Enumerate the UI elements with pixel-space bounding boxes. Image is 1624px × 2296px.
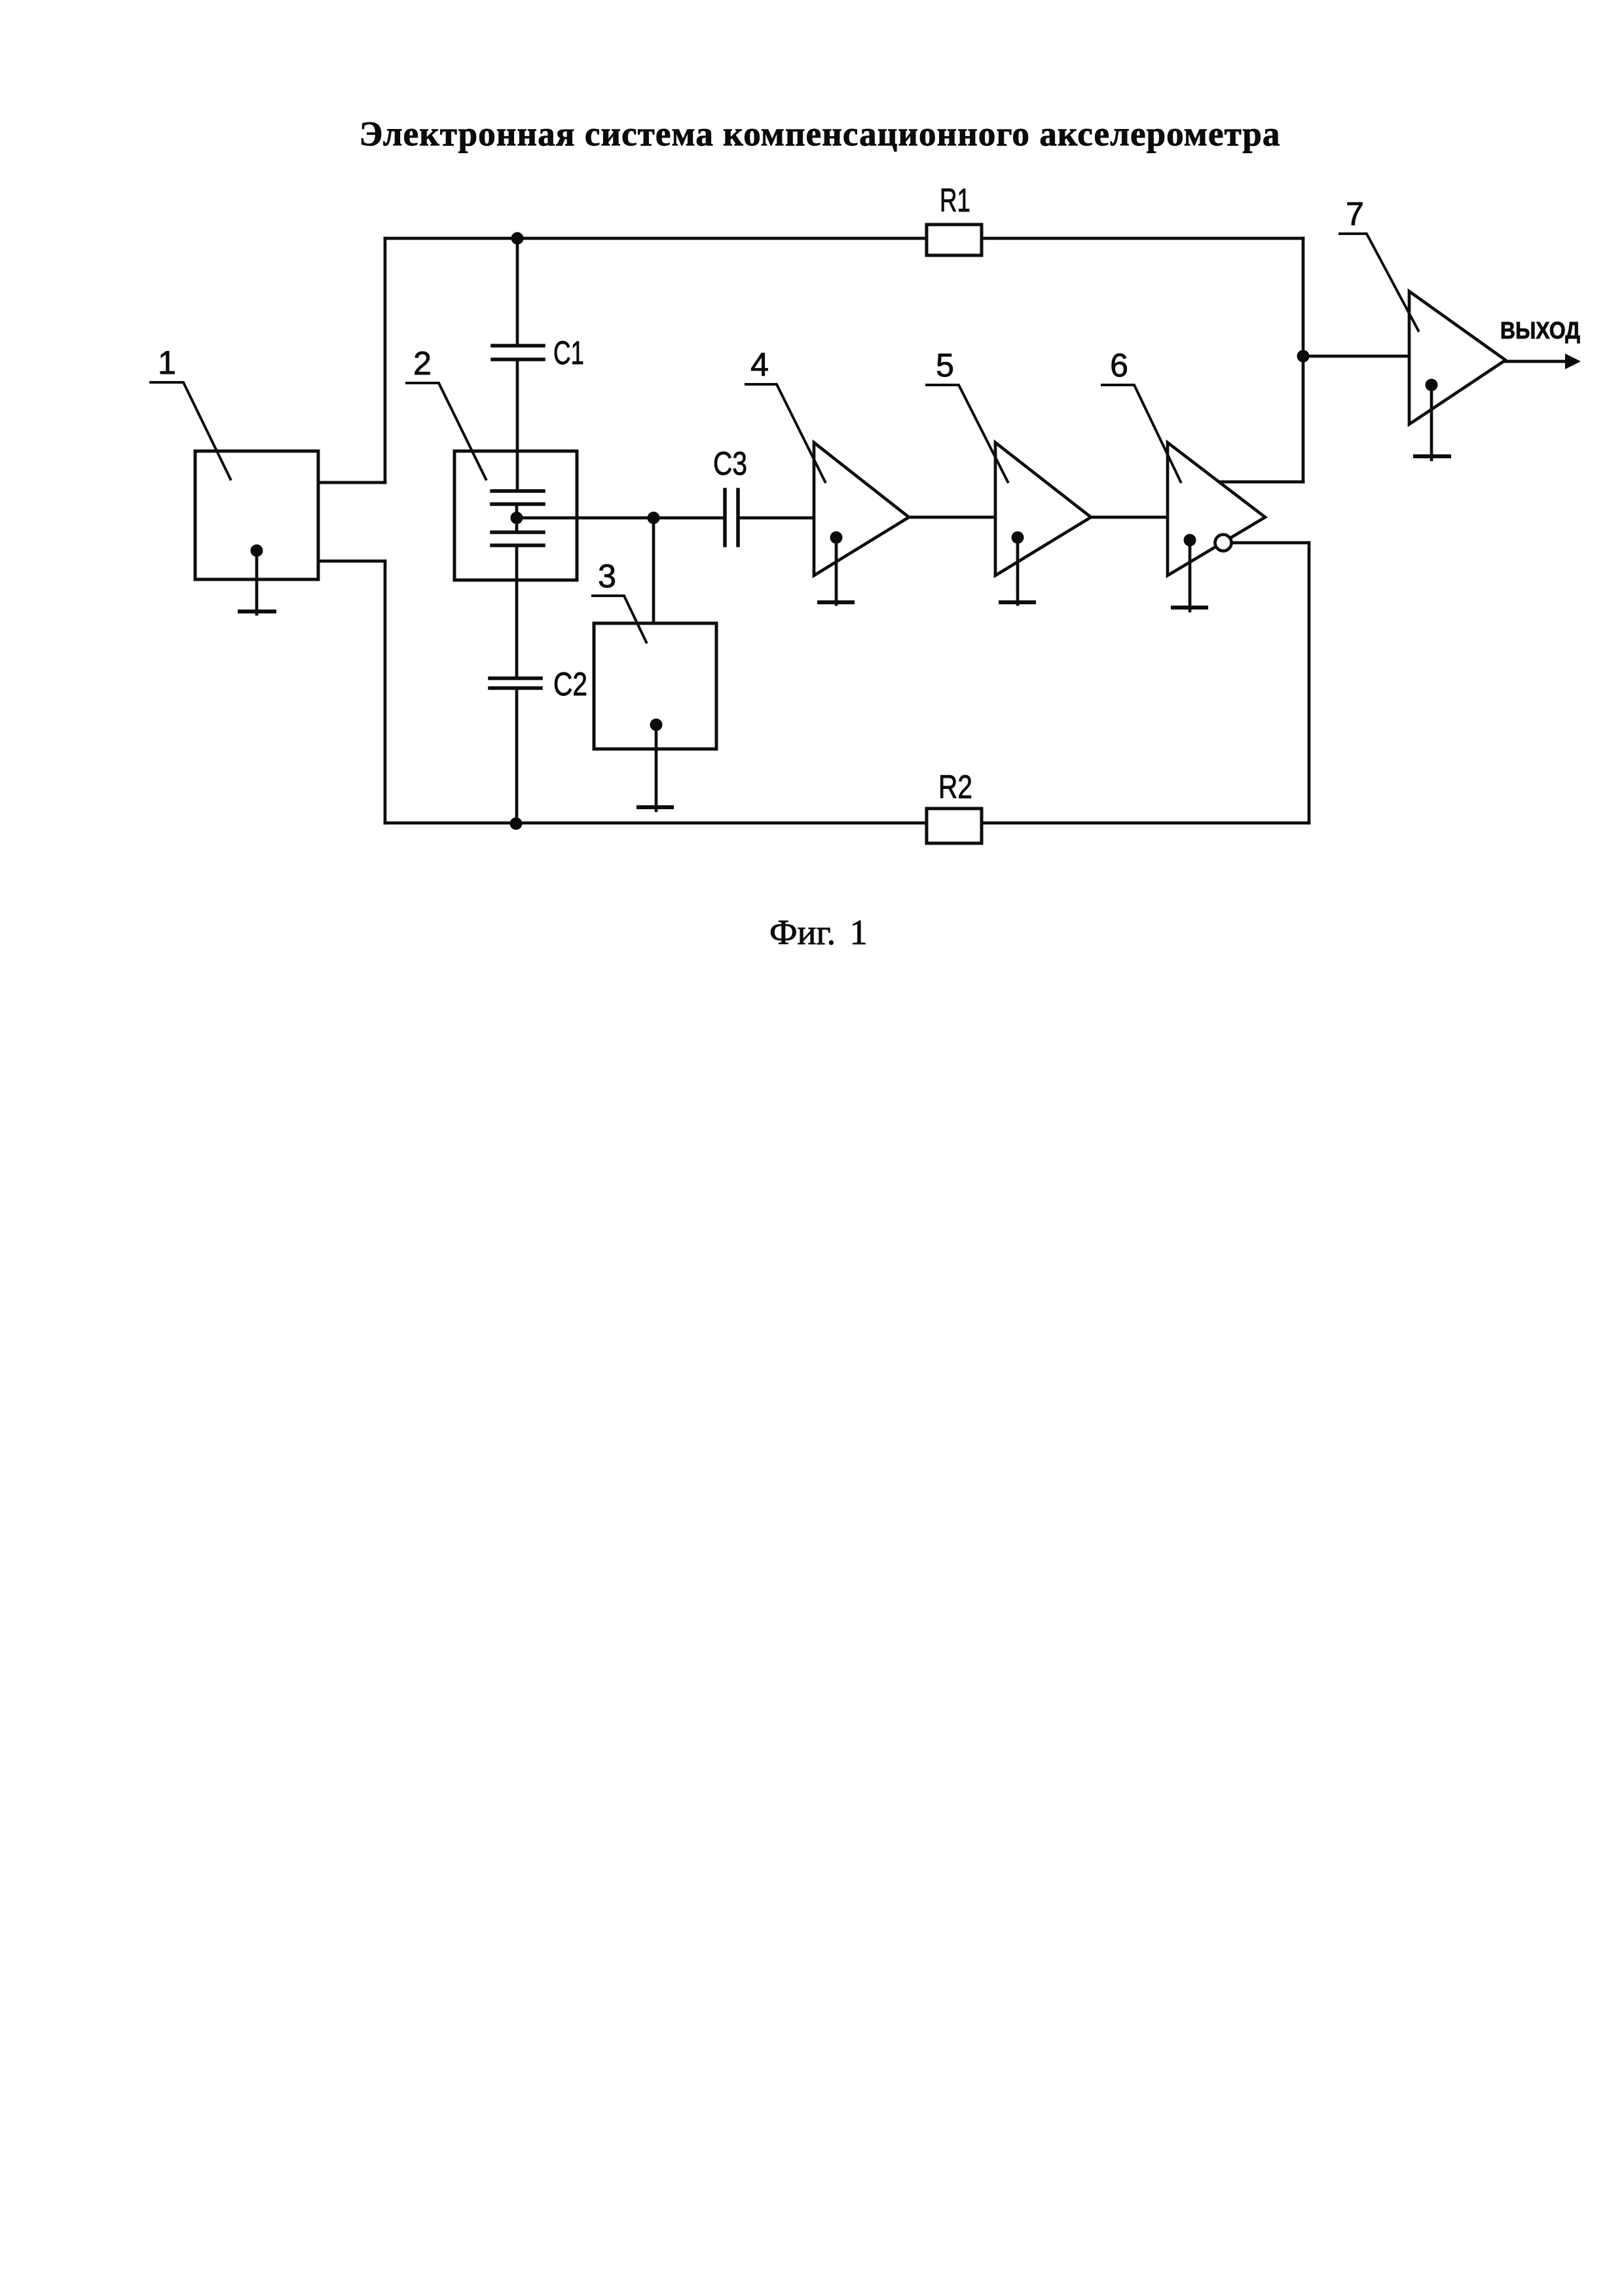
node feedback / amp7 input [1297, 350, 1310, 363]
wire C1 branch upper [516, 238, 519, 344]
leader of label 6 [1102, 385, 1181, 482]
ground of block 1 [240, 545, 274, 615]
ground of op-amp 6 [1173, 534, 1206, 611]
svg-text:4: 4 [750, 346, 769, 383]
wire block1 upper port [318, 481, 385, 484]
svg-text:R1: R1 [940, 182, 970, 219]
wire C1 to sensor top plate [516, 361, 519, 491]
wire sensor bottom plate to C2 [515, 545, 519, 676]
block 1 sensor unit [195, 451, 318, 579]
op-amp 7 [1409, 291, 1505, 424]
wire amp6 top edge to feedback vertical [1219, 481, 1303, 484]
leader of label 2 [407, 383, 486, 479]
svg-text:Фиг. 1: Фиг. 1 [769, 913, 868, 952]
node signal row / block3 [648, 512, 660, 524]
block 2 differential capacitor unit [454, 451, 577, 580]
inverter bubble of op-amp 6 [1215, 535, 1232, 551]
leader of label 3 [593, 596, 646, 642]
ground of op-amp 7 [1415, 379, 1449, 460]
wire left vertical lower [384, 561, 387, 823]
svg-text:7: 7 [1346, 196, 1364, 232]
leader of label 5 [927, 385, 1008, 482]
op-amp 4 [814, 443, 909, 575]
wire R1 feedback vertical [1302, 238, 1305, 482]
capacitor C1 [492, 346, 544, 359]
wire sensor middle electrode [515, 504, 519, 532]
node top rail / C1 [511, 232, 524, 245]
svg-text:5: 5 [936, 347, 954, 384]
svg-text:1: 1 [158, 344, 176, 381]
wire amp5 to amp6 [1091, 516, 1168, 519]
wire amp6 bubble output [1232, 541, 1309, 545]
node bottom rail / C2 [510, 818, 523, 830]
wire amp7 output [1505, 360, 1566, 363]
node sensor middle electrode [511, 512, 523, 524]
output arrow [1565, 354, 1581, 369]
svg-text:Электронная система компенсаци: Электронная система компенсационного акс… [359, 115, 1280, 153]
svg-text:6: 6 [1110, 347, 1128, 384]
leader of label 1 [151, 382, 231, 479]
wire amp7 input [1303, 355, 1409, 358]
wire signal row to C3 [517, 517, 724, 520]
capacitor C2 [490, 678, 541, 688]
capacitor sensor lower inside block 2 [492, 532, 544, 545]
op-amp 6 [1168, 443, 1265, 575]
svg-text:C2: C2 [553, 666, 587, 702]
wire C2 to bottom rail [515, 690, 519, 823]
wire bubble output vertical to bottom rail [1308, 543, 1311, 823]
wire top rail [385, 237, 1303, 240]
svg-text:3: 3 [598, 558, 616, 594]
svg-text:2: 2 [413, 345, 432, 382]
leader of label 4 [746, 384, 825, 482]
capacitor sensor upper inside block 2 [492, 491, 544, 504]
wire amp4 to amp5 [909, 516, 995, 519]
leader of label 7 [1340, 234, 1418, 331]
svg-text:ВЫХОД: ВЫХОД [1500, 317, 1580, 344]
wire left vertical upper [384, 238, 387, 483]
svg-text:C3: C3 [713, 445, 747, 482]
capacitor C3 [725, 490, 738, 545]
block 3 unit [594, 623, 716, 749]
ground of op-amp 5 [1001, 532, 1034, 605]
ground of op-amp 4 [819, 532, 853, 605]
resistor R2 [927, 809, 982, 843]
svg-text:R2: R2 [938, 769, 972, 805]
wire bottom rail [385, 822, 1309, 825]
resistor R1 [927, 225, 982, 255]
wire node to block3 [652, 518, 655, 623]
svg-text:C1: C1 [553, 335, 584, 371]
wire block1 lower port [318, 560, 385, 563]
wire C3 to amp4 [739, 517, 814, 520]
ground of block 3 [638, 719, 672, 811]
op-amp 5 [995, 443, 1091, 575]
